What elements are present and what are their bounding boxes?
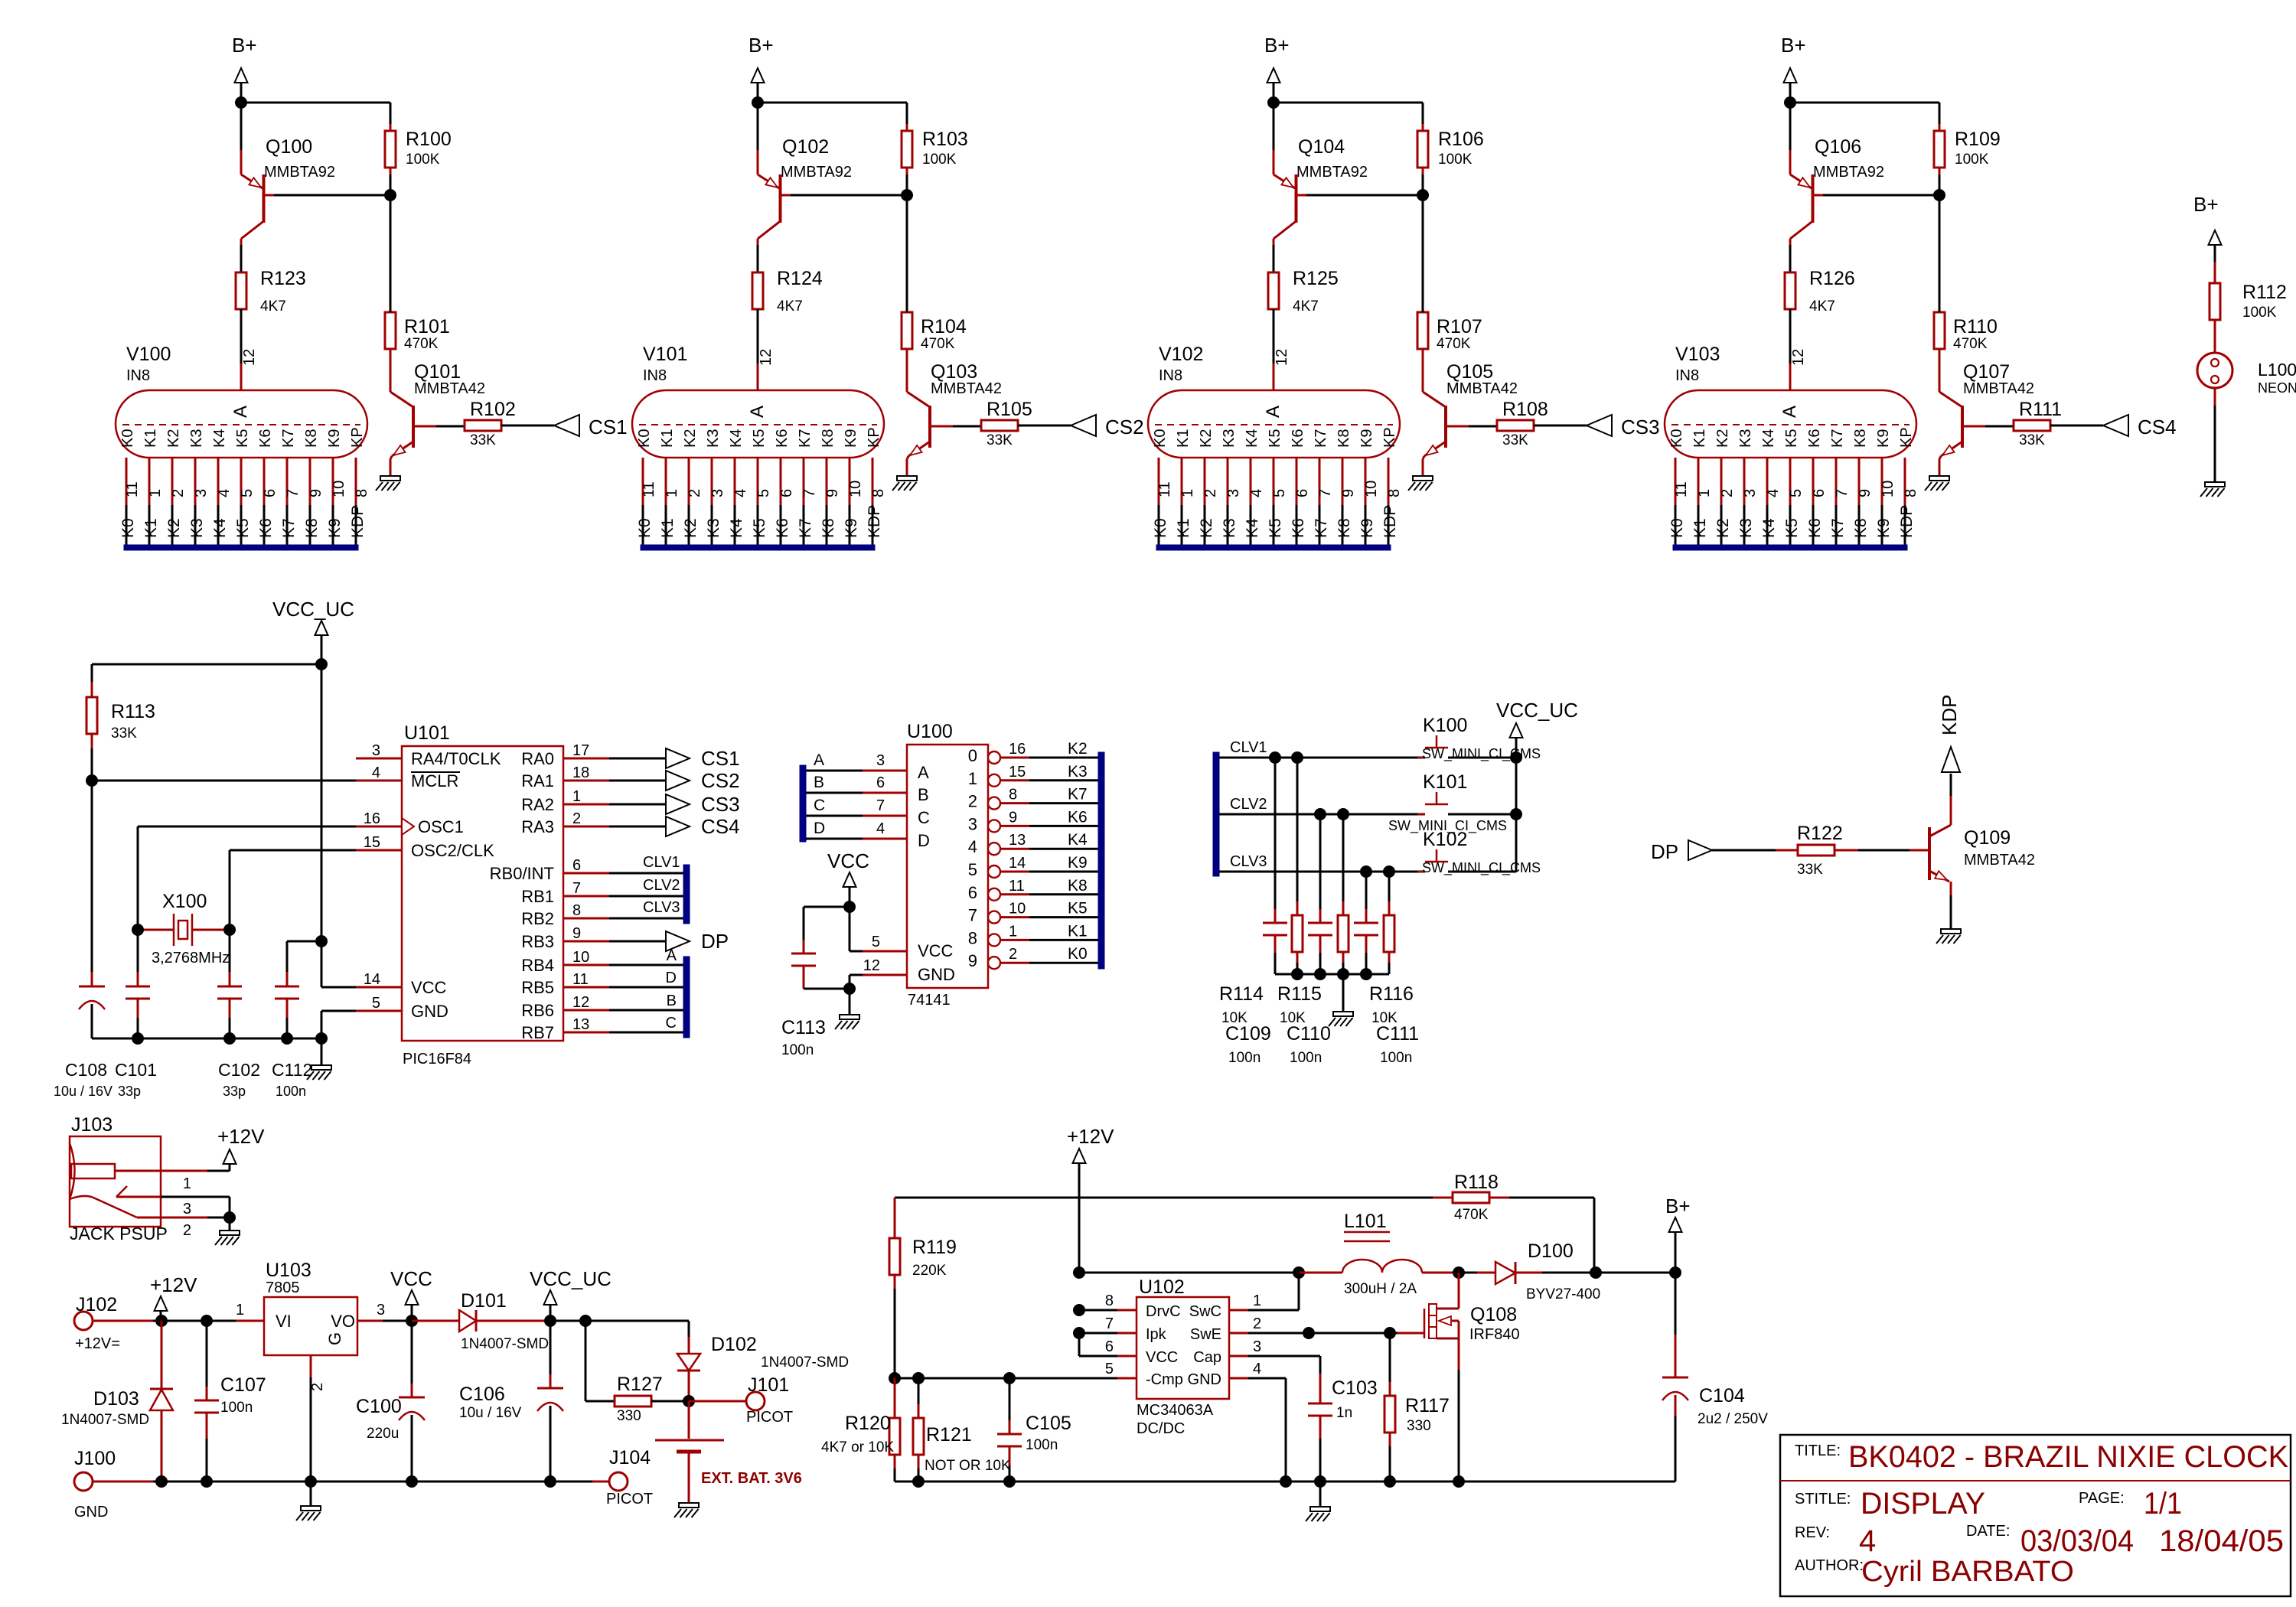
svg-text:K4: K4 — [1760, 429, 1777, 448]
connector J101 — [746, 1392, 765, 1410]
svg-text:VCC: VCC — [390, 1267, 432, 1290]
svg-text:4: 4 — [216, 489, 233, 497]
svg-text:3: 3 — [968, 814, 977, 833]
svg-text:MMBTA42: MMBTA42 — [414, 380, 485, 397]
wire — [1273, 245, 1275, 272]
svg-text:K6: K6 — [257, 518, 275, 538]
svg-text:CS2: CS2 — [1105, 416, 1144, 438]
node CS4 — [2103, 415, 2128, 436]
svg-text:MCLR: MCLR — [411, 771, 458, 790]
svg-text:KP: KP — [866, 427, 882, 448]
pin 16 OSC1 — [356, 826, 402, 828]
power B+ — [1267, 68, 1280, 83]
wire (+12V rail) — [93, 1320, 153, 1322]
svg-text:300uH / 2A: 300uH / 2A — [1344, 1281, 1417, 1297]
ground — [897, 476, 917, 481]
resistor R125 — [1268, 272, 1279, 309]
svg-text:R114: R114 — [1219, 983, 1264, 1005]
svg-text:7: 7 — [968, 906, 977, 925]
svg-text:7: 7 — [1105, 1315, 1114, 1332]
pin 12 RB6 — [563, 1009, 609, 1012]
svg-text:+12V=: +12V= — [75, 1335, 120, 1352]
svg-text:9: 9 — [968, 951, 977, 970]
svg-text:B+: B+ — [748, 34, 774, 57]
svg-text:R127: R127 — [617, 1374, 663, 1395]
svg-text:R113: R113 — [111, 701, 155, 722]
svg-text:11: 11 — [124, 481, 141, 497]
svg-text:470K: 470K — [921, 336, 955, 352]
svg-text:U103: U103 — [266, 1260, 311, 1281]
node CS1 — [666, 748, 690, 768]
junction — [843, 901, 856, 913]
svg-text:18/04/05: 18/04/05 — [2159, 1524, 2284, 1558]
svg-text:D: D — [666, 970, 677, 986]
svg-text:8: 8 — [1009, 787, 1017, 803]
svg-text:R116: R116 — [1369, 983, 1414, 1005]
ground — [1929, 476, 1949, 481]
resistor R113 — [91, 664, 93, 682]
power VCC_UC — [1510, 723, 1523, 738]
junction — [132, 924, 144, 936]
svg-text:RB7: RB7 — [521, 1023, 554, 1042]
svg-text:D: D — [918, 831, 930, 850]
wire (R118 top rail) — [895, 1197, 1433, 1199]
svg-text:K1: K1 — [142, 429, 159, 448]
wire — [240, 245, 243, 272]
svg-text:R102: R102 — [470, 399, 516, 420]
svg-text:R101: R101 — [404, 316, 450, 337]
capacitor C108 (electrolytic) — [91, 781, 93, 972]
capacitor C113 — [803, 907, 805, 940]
svg-text:330: 330 — [1407, 1418, 1431, 1434]
svg-text:B+: B+ — [1781, 34, 1806, 57]
pin 13 RB7 — [563, 1032, 609, 1034]
node CS3 — [1587, 415, 1612, 436]
junction — [1303, 1327, 1315, 1339]
svg-text:100n: 100n — [781, 1042, 814, 1058]
tube cathode pins and pin numbers — [1675, 458, 1677, 505]
wire — [2214, 320, 2216, 353]
svg-text:C: C — [666, 1015, 677, 1032]
ground — [679, 1503, 699, 1508]
svg-text:DP: DP — [701, 930, 729, 953]
svg-text:B: B — [918, 785, 929, 804]
svg-text:NOT OR 10K: NOT OR 10K — [925, 1458, 1011, 1474]
wire (tube anode, pin 12) — [1789, 309, 1792, 363]
svg-text:100K: 100K — [1955, 152, 1989, 168]
wire pin4 GND — [1248, 1377, 1286, 1380]
battery EXT. BAT. 3V6 — [688, 1401, 690, 1439]
bus (CLV left) — [1213, 752, 1219, 876]
transistor Q103 — [928, 406, 931, 448]
svg-text:VCC_UC: VCC_UC — [530, 1267, 612, 1290]
svg-text:3: 3 — [193, 489, 210, 497]
svg-text:8: 8 — [870, 489, 887, 497]
svg-text:10: 10 — [1363, 481, 1380, 497]
resistor R100 — [385, 131, 396, 168]
capacitor C103 — [1308, 1403, 1332, 1405]
svg-text:K1: K1 — [1691, 429, 1708, 448]
resistor R109 — [1934, 131, 1945, 168]
svg-text:K5: K5 — [1783, 518, 1801, 538]
wires A D B C — [609, 964, 684, 966]
svg-text:K0: K0 — [1152, 429, 1169, 448]
svg-text:K8: K8 — [1336, 429, 1352, 448]
svg-text:TITLE:: TITLE: — [1795, 1442, 1841, 1459]
pin 1 RA2 — [563, 803, 609, 806]
svg-text:SwC: SwC — [1189, 1303, 1221, 1320]
svg-text:100n: 100n — [1380, 1050, 1412, 1066]
junction — [223, 1032, 236, 1045]
svg-text:K8: K8 — [820, 518, 837, 538]
svg-text:5: 5 — [1271, 489, 1288, 497]
svg-text:K4: K4 — [1068, 831, 1088, 849]
svg-text:3: 3 — [372, 742, 380, 759]
svg-text:V102: V102 — [1159, 344, 1203, 365]
wire OSC2 net — [230, 849, 356, 852]
svg-text:8: 8 — [572, 902, 581, 919]
svg-text:13: 13 — [572, 1016, 589, 1033]
power B+ — [752, 68, 765, 83]
svg-text:Cap: Cap — [1193, 1349, 1221, 1366]
pin 15 OSC2/CLK — [356, 849, 402, 852]
svg-text:R118: R118 — [1454, 1172, 1499, 1193]
pin 5 GND — [356, 1010, 402, 1012]
pin 14 VCC — [356, 986, 402, 989]
svg-text:GND: GND — [1188, 1371, 1221, 1388]
transistor Q101 — [412, 406, 415, 448]
capacitor C106 (electrolytic) — [550, 1321, 552, 1374]
pin 5 -Cmp — [1117, 1377, 1137, 1380]
svg-text:C100: C100 — [356, 1396, 402, 1417]
bus (K outputs) — [1098, 752, 1104, 969]
svg-text:9: 9 — [572, 925, 581, 942]
wire — [1422, 168, 1424, 174]
wire — [1534, 425, 1587, 427]
junction — [544, 1315, 556, 1327]
svg-text:4K7: 4K7 — [1293, 298, 1319, 315]
transistor Q106 — [1812, 174, 1815, 223]
svg-text:KP: KP — [1381, 427, 1398, 448]
svg-text:K1: K1 — [1175, 429, 1192, 448]
svg-text:0: 0 — [968, 746, 977, 765]
junction — [1073, 1266, 1085, 1279]
resistor R117 — [1389, 1333, 1391, 1382]
junction — [889, 1372, 901, 1384]
svg-text:R125: R125 — [1293, 268, 1339, 289]
svg-text:RB5: RB5 — [521, 978, 554, 997]
wire pin1 SwC — [1248, 1309, 1299, 1312]
svg-text:K2: K2 — [165, 429, 182, 448]
capacitor C102 — [229, 930, 231, 972]
svg-text:1: 1 — [572, 788, 581, 805]
wire pin3 Cap — [1248, 1355, 1320, 1358]
svg-text:K101: K101 — [1423, 771, 1467, 793]
svg-text:MMBTA42: MMBTA42 — [1964, 852, 2035, 869]
svg-text:K0: K0 — [1152, 518, 1169, 538]
svg-text:33p: 33p — [118, 1084, 141, 1099]
svg-text:K0: K0 — [119, 429, 136, 448]
svg-text:1: 1 — [1179, 489, 1196, 497]
svg-text:IN8: IN8 — [1159, 367, 1182, 384]
svg-text:MMBTA42: MMBTA42 — [1446, 380, 1518, 397]
junction — [1280, 1475, 1292, 1488]
wire — [1515, 738, 1518, 872]
svg-text:K7: K7 — [1313, 518, 1330, 538]
node DP — [666, 931, 690, 951]
pin 1 wire (+12V) — [115, 1170, 207, 1172]
svg-text:8: 8 — [1903, 489, 1919, 497]
svg-text:4: 4 — [1253, 1361, 1261, 1377]
svg-text:A: A — [918, 763, 929, 782]
ground — [1319, 1482, 1322, 1507]
svg-text:2u2 / 250V: 2u2 / 250V — [1698, 1411, 1768, 1427]
diode D102 — [688, 1321, 690, 1337]
resistor R114 — [1296, 758, 1299, 901]
svg-text:OSC1: OSC1 — [418, 817, 464, 836]
svg-text:K3: K3 — [1221, 429, 1238, 448]
svg-text:C109: C109 — [1225, 1023, 1271, 1045]
svg-text:4: 4 — [1859, 1524, 1876, 1558]
svg-text:100K: 100K — [2242, 305, 2277, 321]
svg-text:A: A — [1263, 406, 1283, 418]
pin 2 SwE — [1229, 1332, 1248, 1335]
svg-text:MMBTA92: MMBTA92 — [264, 164, 335, 181]
junction — [1003, 1475, 1016, 1488]
svg-text:K6: K6 — [1068, 808, 1088, 826]
svg-text:5: 5 — [872, 934, 880, 950]
pin 2 wire — [310, 1355, 312, 1377]
junction — [1314, 1475, 1326, 1488]
svg-text:K9: K9 — [843, 429, 859, 448]
svg-text:R105: R105 — [987, 399, 1032, 420]
svg-text:CLV2: CLV2 — [1230, 796, 1267, 813]
pin 1 SwC — [1229, 1309, 1248, 1312]
svg-text:CS3: CS3 — [1621, 416, 1660, 438]
svg-text:1: 1 — [1009, 923, 1017, 940]
svg-text:K2: K2 — [1714, 518, 1732, 538]
svg-text:3: 3 — [1742, 489, 1759, 497]
pin 2 wire — [137, 1217, 207, 1219]
svg-text:Q108: Q108 — [1470, 1304, 1517, 1325]
svg-text:V100: V100 — [126, 344, 171, 365]
ground — [380, 476, 400, 481]
svg-text:1N4007-SMD: 1N4007-SMD — [761, 1354, 849, 1371]
svg-text:11: 11 — [1156, 481, 1173, 497]
svg-text:10u / 16V: 10u / 16V — [54, 1084, 113, 1099]
svg-text:C107: C107 — [220, 1374, 266, 1396]
svg-text:CS1: CS1 — [589, 416, 628, 438]
pin 3 Cap — [1229, 1355, 1248, 1358]
junction — [1933, 189, 1945, 201]
svg-text:DC/DC: DC/DC — [1137, 1420, 1185, 1437]
wire — [757, 83, 759, 103]
wire — [1821, 194, 1939, 197]
svg-text:100n: 100n — [1026, 1437, 1058, 1453]
junction — [155, 1315, 168, 1327]
svg-text:K9: K9 — [1875, 429, 1892, 448]
svg-text:B: B — [814, 774, 824, 791]
svg-text:SW_MINI_CI_CMS: SW_MINI_CI_CMS — [1422, 860, 1541, 876]
svg-text:K6: K6 — [1806, 429, 1823, 448]
svg-text:100n: 100n — [1228, 1050, 1261, 1066]
resistor R104 — [902, 312, 912, 349]
resistor R118 — [1453, 1192, 1489, 1203]
svg-text:K3: K3 — [188, 518, 206, 538]
wire pin5 GND — [321, 1010, 356, 1012]
svg-text:SW_MINI_CI_CMS: SW_MINI_CI_CMS — [1422, 746, 1541, 762]
wire — [804, 906, 850, 908]
junction — [544, 1475, 556, 1488]
svg-text:33K: 33K — [1502, 432, 1528, 448]
resistor R110 — [1934, 312, 1945, 349]
svg-text:K1: K1 — [142, 518, 160, 538]
svg-text:KDP: KDP — [1381, 505, 1399, 538]
svg-text:+12V: +12V — [150, 1273, 197, 1296]
junction — [132, 1032, 144, 1045]
svg-text:33K: 33K — [470, 432, 496, 448]
wire — [412, 1320, 459, 1322]
svg-text:K100: K100 — [1423, 715, 1467, 736]
svg-text:CLV1: CLV1 — [643, 854, 680, 871]
svg-text:R106: R106 — [1438, 129, 1484, 150]
svg-text:K4: K4 — [728, 429, 745, 448]
svg-text:L101: L101 — [1344, 1211, 1387, 1232]
svg-text:4K7 or 10K: 4K7 or 10K — [821, 1439, 894, 1455]
svg-text:K9: K9 — [1358, 518, 1376, 538]
node CS2 — [1071, 415, 1096, 436]
svg-text:K4: K4 — [1244, 518, 1261, 538]
wire (dcdc gnd rail) — [895, 1481, 1675, 1483]
svg-text:K8: K8 — [820, 429, 837, 448]
wires CLV1-CLV3 — [609, 872, 684, 875]
svg-text:K5: K5 — [1783, 429, 1800, 448]
svg-text:6: 6 — [778, 489, 795, 497]
svg-text:K9: K9 — [326, 518, 344, 538]
svg-text:3: 3 — [1225, 489, 1242, 497]
wire (tube anode, pin 12) — [1273, 309, 1275, 363]
svg-text:B+: B+ — [232, 34, 257, 57]
junction — [1003, 1372, 1016, 1384]
svg-text:7805: 7805 — [266, 1279, 300, 1296]
svg-text:K3: K3 — [1221, 518, 1238, 538]
svg-text:K0: K0 — [1068, 945, 1088, 963]
resistor R127 — [615, 1396, 651, 1407]
connector J104 — [592, 1481, 594, 1483]
svg-text:Q106: Q106 — [1815, 136, 1861, 158]
svg-text:R109: R109 — [1955, 129, 2001, 150]
junction — [1360, 968, 1372, 980]
svg-text:4K7: 4K7 — [1809, 298, 1835, 315]
MCLR overline — [411, 771, 460, 773]
junction — [901, 189, 913, 201]
svg-text:PIC16F84: PIC16F84 — [403, 1051, 471, 1068]
svg-text:R122: R122 — [1797, 823, 1843, 844]
svg-text:6: 6 — [1105, 1338, 1114, 1355]
bus (cathode bus) — [641, 545, 875, 550]
pin 4 MCLR — [356, 780, 402, 782]
svg-text:220u: 220u — [367, 1426, 399, 1442]
svg-text:K7: K7 — [797, 429, 814, 448]
svg-text:13: 13 — [1009, 832, 1026, 849]
svg-text:14: 14 — [364, 971, 380, 988]
junction — [912, 1372, 925, 1384]
tube cathode pins and pin numbers — [1158, 458, 1160, 505]
svg-text:10u / 16V: 10u / 16V — [459, 1405, 522, 1421]
bus (cathode bus) — [124, 545, 358, 550]
svg-text:+12V: +12V — [1067, 1125, 1114, 1148]
svg-text:J100: J100 — [74, 1448, 116, 1469]
svg-text:D102: D102 — [711, 1334, 757, 1355]
svg-text:R119: R119 — [912, 1237, 957, 1258]
svg-text:B: B — [667, 993, 677, 1009]
resistor R126 — [1785, 272, 1795, 309]
junction — [1314, 968, 1326, 980]
junction — [201, 1475, 213, 1488]
svg-text:12: 12 — [758, 349, 775, 366]
junction — [1510, 808, 1522, 820]
svg-text:R117: R117 — [1405, 1395, 1450, 1416]
bus (CLV) — [683, 865, 690, 924]
resistor R123 — [236, 272, 246, 309]
pin 7 Ipk — [1117, 1332, 1137, 1335]
svg-text:MMBTA92: MMBTA92 — [1813, 164, 1884, 181]
wire B — [806, 792, 863, 794]
wire — [390, 168, 392, 174]
resistor R120 — [894, 1378, 896, 1404]
resistor R106 — [1417, 131, 1428, 168]
wire (to R127) — [585, 1321, 587, 1401]
svg-text:RB6: RB6 — [521, 1001, 554, 1020]
svg-text:C105: C105 — [1026, 1413, 1071, 1434]
resistor R102 — [465, 420, 501, 431]
svg-text:6: 6 — [1811, 489, 1828, 497]
svg-text:100K: 100K — [922, 152, 957, 168]
svg-text:CLV1: CLV1 — [1230, 739, 1267, 756]
wire — [1305, 194, 1423, 197]
svg-text:R126: R126 — [1809, 268, 1855, 289]
svg-text:K9: K9 — [1358, 429, 1375, 448]
pin 3 — [357, 1320, 383, 1322]
svg-text:DP: DP — [1651, 840, 1678, 863]
ground — [2205, 482, 2225, 487]
svg-text:BYV27-400: BYV27-400 — [1526, 1286, 1600, 1302]
svg-text:-Cmp: -Cmp — [1146, 1371, 1183, 1388]
junction — [155, 1475, 168, 1488]
svg-text:4: 4 — [732, 489, 749, 497]
svg-text:SwE: SwE — [1190, 1326, 1221, 1343]
svg-text:KDP: KDP — [1898, 505, 1916, 538]
svg-text:VCC: VCC — [411, 978, 447, 997]
svg-text:6: 6 — [968, 883, 977, 902]
junction — [1784, 96, 1796, 109]
svg-text:2: 2 — [1253, 1315, 1261, 1332]
svg-text:9: 9 — [308, 489, 325, 497]
svg-text:2: 2 — [1202, 489, 1219, 497]
svg-text:AUTHOR:: AUTHOR: — [1795, 1557, 1864, 1574]
resistor R108 — [1497, 420, 1534, 431]
svg-text:R103: R103 — [922, 129, 968, 150]
junction — [1453, 1266, 1465, 1279]
junction — [235, 96, 247, 109]
svg-text:1: 1 — [968, 769, 977, 788]
svg-text:Q105: Q105 — [1446, 361, 1493, 383]
svg-text:RB1: RB1 — [521, 887, 554, 906]
node CS2 — [666, 771, 690, 790]
svg-text:Q101: Q101 — [414, 361, 461, 383]
svg-text:5: 5 — [239, 489, 256, 497]
junction — [1269, 751, 1281, 764]
